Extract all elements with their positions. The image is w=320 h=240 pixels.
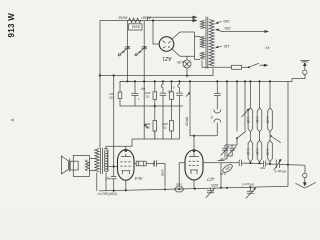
wire left vertical from H1 down to output transformer [99, 21, 101, 148]
T1 left winding lower section [200, 52, 204, 59]
svg-text:32mA: 32mA [185, 116, 189, 126]
svg-text:30: 30 [138, 50, 142, 54]
svg-text:4μF: 4μF [105, 177, 111, 181]
loudspeaker gap bar [68, 158, 70, 171]
svg-text:8142: 8142 [132, 24, 140, 28]
arrowhead H1b [193, 16, 198, 19]
arrester gap [214, 110, 221, 123]
svg-text:0,20: 0,20 [255, 149, 259, 156]
resistor bank column 2 upper 0.3 [259, 81, 261, 107]
wire bank link [126, 131, 155, 146]
wire grid link [108, 166, 118, 168]
svg-text:50: 50 [167, 89, 171, 93]
svg-text:AF7: AF7 [206, 177, 215, 182]
AF7 bottom lead [193, 180, 195, 188]
wire tube right to transformer [171, 32, 194, 60]
wire top rail H1 [100, 20, 194, 22]
trimmer capacitor C2 [143, 21, 145, 82]
svg-text:6,3V: 6,3V [176, 60, 184, 64]
wire grid feed through D1 [113, 76, 115, 177]
AF7 grids [189, 160, 199, 162]
svg-text:0,05: 0,05 [265, 117, 269, 124]
AL4 bottom lead [125, 180, 127, 190]
AL4 grids [120, 161, 130, 163]
svg-text:ACEP: ACEP [141, 15, 151, 19]
variable capacitor C8 [229, 148, 235, 150]
variable capacitor C16 [277, 160, 280, 168]
svg-text:220: 220 [225, 26, 231, 30]
coupling chain: anode out [134, 163, 136, 165]
capacitor C5 with curl [178, 81, 180, 92]
C11 value ellipse 100 [221, 163, 233, 174]
earth symbol [304, 165, 306, 173]
capacitor C9 [111, 177, 117, 179]
node junction on left vertical [99, 74, 101, 76]
wire H1 junction to tube left [153, 21, 159, 45]
output transformer T2 core [100, 148, 102, 174]
wire drop x227 [226, 81, 228, 159]
T1 left winding middle section [200, 36, 204, 48]
wire T2 winding bottoms to ground bus [97, 173, 106, 191]
T1 left winding upper section [200, 20, 204, 28]
svg-text:4V: 4V [265, 45, 270, 49]
capacitor C10 [154, 160, 156, 166]
pilot lamp [183, 60, 191, 68]
wire tube2 top drop [193, 136, 195, 150]
AL4 anode [121, 154, 131, 157]
svg-text:0,10: 0,10 [246, 149, 250, 156]
svg-text:1,02: 1,02 [265, 149, 269, 156]
resistor bank column 3 lower 1.0 [269, 132, 271, 141]
resistor R1 zigzag on H1 [129, 18, 142, 22]
output transformer T2 primary [104, 148, 108, 171]
resistor bank column 2 lower 0.2 [259, 132, 261, 141]
output transformer T2 secondary [95, 149, 99, 172]
resistor R1 value box 8142 [129, 24, 143, 30]
svg-text:0,05: 0,05 [246, 117, 250, 124]
output tube AL4 [118, 150, 135, 181]
svg-text:500μμ+2: 500μμ+2 [274, 169, 286, 173]
resistor R4 lower [153, 121, 157, 132]
resistor R3 [154, 81, 156, 91]
svg-text:0,30: 0,30 [255, 117, 259, 124]
AF7 cathode [190, 170, 198, 174]
wire right vertical [287, 81, 289, 186]
wire lamp bottom to rail [186, 68, 188, 76]
resistor bank column 3 upper 0.05 [269, 81, 271, 107]
capacitor C13 [263, 161, 265, 167]
svg-text:110: 110 [224, 44, 230, 48]
loudspeaker magnet block [70, 161, 78, 170]
tap 220 arrow with mains line H2 [216, 30, 265, 32]
wiper tick [186, 93, 189, 96]
svg-text:0,04: 0,04 [220, 172, 226, 176]
arrowhead H1 [193, 19, 198, 22]
AF7 top cap [193, 149, 196, 152]
svg-text:AZ1: AZ1 [162, 55, 172, 61]
svg-text:U=255 (AZ1): U=255 (AZ1) [98, 192, 118, 196]
capacitor C4 with curl [161, 81, 163, 92]
trimmer capacitor C11 [218, 161, 225, 163]
ground bus [99, 186, 288, 191]
tap 110 arrow [216, 46, 222, 48]
svg-text:AC62: AC62 [119, 15, 128, 19]
tube AF7 [185, 150, 203, 180]
rail H4 main bus [120, 79, 305, 82]
svg-text:913 W: 913 W [7, 13, 16, 38]
variable capacitor C15 below bus [249, 187, 251, 191]
svg-text:6000: 6000 [160, 170, 164, 177]
trimmer capacitor C1 [126, 21, 128, 82]
AL4 cathode [121, 171, 130, 175]
wire winding link upper [195, 37, 201, 60]
svg-text:AL4: AL4 [134, 176, 143, 181]
AF7 anode out wire [203, 162, 218, 164]
switch S1 [248, 66, 250, 68]
svg-text:0,1: 0,1 [170, 85, 174, 89]
electrolytic capacitor C3 [134, 81, 136, 93]
AF7 anode [189, 152, 199, 157]
decoupling resistor R2 [119, 81, 121, 92]
AL4 top cap [124, 149, 127, 152]
capacitor C6 [216, 81, 218, 93]
svg-text:500μμ+2: 500μμ+2 [242, 182, 254, 186]
wire to C10 [146, 163, 154, 165]
field coil box [73, 155, 89, 176]
T1 right winding zigzag [209, 20, 214, 67]
fuse F1 [232, 65, 242, 69]
svg-text:2μ: 2μ [210, 115, 214, 119]
field coil winding zigzag [85, 160, 89, 171]
wiper arrow [145, 125, 149, 128]
wire fuse to switch [242, 66, 249, 68]
wire mains bottom [202, 60, 232, 67]
svg-text:30: 30 [121, 50, 125, 54]
antenna symbol [304, 75, 306, 79]
wire screen feed [190, 81, 217, 135]
variable capacitor C7 [222, 148, 228, 150]
tap 240 arrow [216, 21, 222, 23]
rail H3 [100, 68, 213, 75]
resistor bank column 1 upper 0.05 [249, 81, 251, 107]
svg-text:50μ: 50μ [152, 161, 156, 166]
wire drop to potentiometer [143, 81, 145, 139]
resistor bank column 1 lower 0.1 [249, 132, 251, 141]
switch S2 pair [237, 81, 245, 131]
resistor R8 pointed box in bus [174, 187, 184, 192]
svg-text:500: 500 [260, 166, 265, 170]
wire box to output transformer [90, 158, 96, 170]
switch S3 [271, 136, 281, 143]
wire AF7 left [179, 163, 185, 187]
transformer T1 core [206, 17, 208, 69]
svg-text:+: + [138, 98, 140, 102]
svg-text:1000: 1000 [211, 183, 218, 187]
variable capacitor C14 below bus [210, 188, 212, 190]
svg-text:1W5: 1W5 [176, 183, 182, 187]
svg-text:240: 240 [224, 19, 230, 23]
capacitor C12 [239, 160, 241, 166]
resistor R5 [171, 81, 173, 91]
wire T2 primary top to B+ [106, 146, 126, 149]
wire lamp feed [186, 56, 188, 60]
loudspeaker cone [61, 156, 68, 174]
wire upper branch H1b [148, 17, 194, 20]
resistor R6 lower [170, 121, 174, 132]
wire C11 chain to series caps [225, 162, 239, 164]
wiper arrow on bank [242, 110, 249, 117]
wire x227 to trimmer cluster [221, 159, 227, 161]
wire C10 to grid leak [157, 164, 165, 187]
resistor R7 box [136, 161, 146, 166]
rectifier tube AZ1 [159, 37, 174, 52]
